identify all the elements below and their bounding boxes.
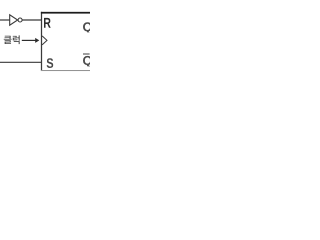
wire: R input, left segment into inverter: [0, 19, 10, 21]
label Q: [83, 22, 92, 34]
latch box top edge: [41, 12, 90, 14]
latch box bottom edge: [41, 70, 90, 71]
clock input triangle on latch edge: [42, 36, 47, 45]
wire: S input from left edge to latch: [0, 61, 42, 63]
clock arrow shaft: [22, 39, 36, 41]
label R: [44, 18, 51, 28]
label S: [47, 58, 54, 68]
label Q-bar letter: [83, 56, 92, 68]
clock arrow head: [35, 38, 39, 43]
inverter bubble: [18, 18, 22, 22]
SR flip-flop schematic, cropped view: [0, 0, 90, 90]
overbar of Q-bar: [83, 54, 90, 55]
label 클럭 (clock): [4, 35, 20, 44]
latch box left edge: [41, 12, 43, 71]
inverter (NOT gate) triangle: [10, 15, 18, 25]
wire: inverter output to R input of latch: [22, 19, 41, 21]
